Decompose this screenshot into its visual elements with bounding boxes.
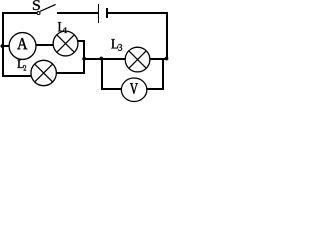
junction node mid: [82, 57, 86, 61]
wire left side down: [2, 12, 4, 77]
voltmeter V circle: [121, 78, 147, 102]
wire voltmeter left: [101, 88, 121, 90]
switch label S: [33, 0, 40, 10]
wire mid vertical L1-L2: [83, 40, 85, 74]
wire voltmeter up to mid wire: [162, 58, 164, 90]
junction node left: [1, 44, 5, 48]
battery short plate: [106, 8, 108, 18]
lamp L3 cross: [129, 51, 146, 68]
label L3: [111, 39, 118, 48]
wire switch to battery: [57, 12, 98, 14]
label L1: [58, 22, 64, 31]
ammeter letter A: [17, 38, 27, 49]
wire L3 right to right side: [150, 58, 168, 60]
wire bottom-left to L2: [2, 75, 31, 77]
wire L1 right stub: [78, 40, 84, 42]
wire node-left to ammeter: [3, 45, 9, 47]
lamp L3 circle: [125, 47, 150, 72]
wire L2 right stub: [56, 72, 84, 74]
junction node right: [165, 57, 169, 61]
ammeter A circle: [9, 33, 36, 60]
switch S lever: [40, 4, 55, 11]
switch S pivot: [37, 12, 40, 15]
wire ammeter to L1: [36, 44, 53, 46]
wire battery to top-right corner: [108, 12, 168, 14]
battery long plate: [98, 4, 99, 23]
lamp L2 circle: [31, 60, 56, 85]
voltmeter letter V: [130, 83, 138, 94]
wire mid horizontal to L3: [84, 58, 125, 60]
lamp L1 cross: [57, 35, 75, 53]
lamp L1 circle: [53, 31, 78, 56]
wire voltmeter right: [147, 88, 163, 90]
wire top-left (to switch): [2, 12, 37, 14]
wire right side down: [166, 12, 168, 60]
wire node down to voltmeter: [101, 58, 103, 90]
junction node branch: [99, 57, 103, 61]
lamp L2 cross: [35, 64, 53, 82]
label L2: [17, 60, 23, 68]
